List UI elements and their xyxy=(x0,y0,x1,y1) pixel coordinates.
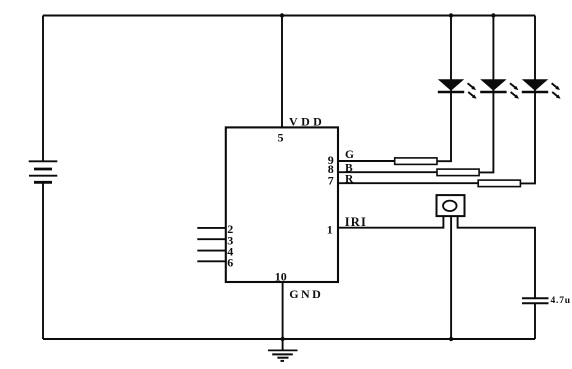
wire B resistor to LED2 column xyxy=(479,16,493,173)
pin 3 stub xyxy=(197,238,226,240)
svg-text:VDD: VDD xyxy=(289,115,325,129)
wire top rail VDD xyxy=(43,15,535,17)
IR receiver U2 xyxy=(437,195,465,216)
wire R resistor to LED3 column xyxy=(520,16,535,184)
op-amp U1 IC body xyxy=(226,127,338,282)
svg-text:5: 5 xyxy=(278,131,284,145)
wire cap bottom to rail xyxy=(534,303,536,339)
wire IR right leg to cap column xyxy=(458,216,535,298)
pin 4 stub xyxy=(197,250,226,252)
svg-text:4.7u: 4.7u xyxy=(551,296,571,306)
node GND junction xyxy=(280,337,284,341)
LED D2 xyxy=(480,79,519,99)
svg-text:GND: GND xyxy=(289,287,323,301)
resistor R-G xyxy=(395,158,437,165)
svg-text:R: R xyxy=(345,174,354,186)
wire IR middle leg to ground rail xyxy=(450,216,452,339)
svg-text:IRI: IRI xyxy=(345,215,367,229)
svg-text:G: G xyxy=(345,149,354,161)
capacitor C1 4.7u xyxy=(522,298,549,303)
LED D1 xyxy=(438,79,477,99)
node LED2 top junction xyxy=(491,13,495,17)
battery BT1 xyxy=(29,161,58,182)
wire G resistor to LED1 column xyxy=(437,16,451,162)
svg-text:B: B xyxy=(345,162,353,174)
wire left battery bottom xyxy=(42,183,44,339)
svg-text:7: 7 xyxy=(328,174,334,188)
wire left battery top xyxy=(42,16,44,162)
wire pin 7 R net xyxy=(338,182,478,184)
ground xyxy=(268,339,298,361)
wire pin 8 B net xyxy=(338,171,437,173)
svg-text:10: 10 xyxy=(275,270,287,284)
wire IC GND to rail xyxy=(282,282,284,339)
svg-text:6: 6 xyxy=(227,255,233,269)
resistor R-R xyxy=(478,180,520,187)
wire pin 9 G net xyxy=(338,160,395,162)
node VDD-IC junction xyxy=(280,13,284,17)
wire bottom rail GND xyxy=(43,338,535,340)
pin 2 stub xyxy=(197,227,226,229)
node IR-gnd junction xyxy=(449,337,453,341)
svg-text:1: 1 xyxy=(327,223,333,237)
resistor R-B xyxy=(437,169,479,176)
wire VDD to IC xyxy=(281,16,283,128)
node LED1 top junction xyxy=(449,13,453,17)
LED D3 xyxy=(522,79,561,99)
wire pin 1 IRI net xyxy=(338,216,443,228)
pin 6 stub xyxy=(197,260,226,262)
